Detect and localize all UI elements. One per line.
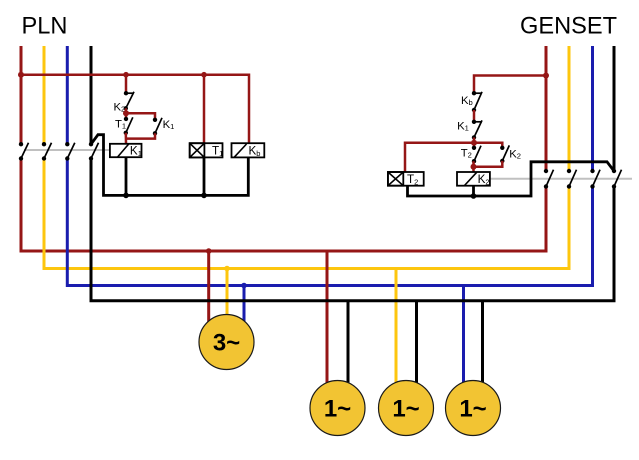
left control neutral bus (black) xyxy=(91,135,248,196)
contact Kb (NC) right circuit xyxy=(472,91,482,112)
motor M3 single-phase load xyxy=(379,381,434,436)
wire GENSET L3 upper (blue) xyxy=(591,46,594,171)
svg-text:Kb: Kb xyxy=(461,95,473,107)
contact K2 aux (NO) right circuit xyxy=(500,145,509,163)
wire L1 drop to 3-phase motor xyxy=(207,251,210,330)
wire red bus to K2 contact xyxy=(125,75,128,94)
node junction below K1 right xyxy=(471,140,477,146)
contactor K1 pole L3 xyxy=(65,142,75,161)
coil K1 box xyxy=(110,144,142,157)
wire GENSET L2 upper (yellow) xyxy=(568,46,571,171)
wire bus L3 (blue) xyxy=(67,159,592,286)
node K1 coil on neutral bus xyxy=(123,193,129,199)
wire junction to K2 contact (right branch) xyxy=(474,143,502,148)
svg-text:1~: 1~ xyxy=(459,396,486,423)
wire N drop to single-phase motor 2 xyxy=(415,301,418,390)
wire L3 drop to single-phase motor 3 xyxy=(462,286,465,391)
svg-text:GENSET: GENSET xyxy=(520,13,617,39)
node junction above K2 coil xyxy=(471,164,477,170)
wire bus L1 (red) PLN switch to GENSET switch xyxy=(21,159,546,251)
contactor K1 pole L2 xyxy=(42,142,52,161)
node L1 drop xyxy=(206,248,212,254)
node K2 coil on neutral bus xyxy=(471,193,477,199)
node tap on PLN L1 xyxy=(18,72,24,78)
node K1-coil branch on red bus xyxy=(123,72,129,78)
svg-text:K2: K2 xyxy=(509,149,521,161)
motor M2 single-phase load xyxy=(310,381,365,436)
wire red bus to T1 timer coil xyxy=(203,75,206,144)
wire L2 drop to single-phase motor 2 xyxy=(395,269,398,391)
contact K1 (NC) right circuit xyxy=(472,120,482,140)
wire junction to K1 contact branch xyxy=(126,113,155,120)
coil Kb box xyxy=(232,143,265,157)
node junction below K2 xyxy=(123,110,129,116)
contactor K2 pole L1 (GENSET) xyxy=(544,169,554,189)
svg-text:K1: K1 xyxy=(457,121,469,133)
node L2 drop xyxy=(224,266,230,272)
wire L3 drop to 3-phase motor xyxy=(243,286,246,331)
left control phase bus (red) xyxy=(21,75,249,144)
mechanical linkage PLN contactor (gray) xyxy=(24,149,110,151)
motor M1 three-phase load xyxy=(199,315,254,370)
contactor K2 pole L3 (GENSET) xyxy=(590,169,600,189)
wire GENSET L1 upper (red) xyxy=(545,46,548,171)
contactor K2 pole N (GENSET) xyxy=(612,169,622,189)
contact T2 (NO) right circuit xyxy=(472,146,481,164)
wire bus L2 (yellow) xyxy=(44,159,569,269)
wire PLN L2 upper (yellow) xyxy=(43,46,46,144)
wire junction to T2 coil (left branch) xyxy=(405,143,474,172)
wire K2 to junction xyxy=(125,108,128,113)
timer T1 box xyxy=(190,143,223,157)
coil K2 box xyxy=(457,172,490,186)
wire PLN L1 upper (red) xyxy=(20,46,23,144)
contactor K2 pole L2 (GENSET) xyxy=(567,169,577,189)
wire parallel-bottom to K1 coil xyxy=(126,133,155,144)
wire junction to T1 contact xyxy=(125,113,128,119)
node tap on GENSET L1 xyxy=(543,73,549,79)
node T1 coil on neutral bus xyxy=(201,193,207,199)
svg-text:1~: 1~ xyxy=(324,396,351,423)
contact K1 aux (NO) left circuit xyxy=(153,118,162,136)
wire PLN N upper (black) xyxy=(90,46,93,144)
node L3 drop xyxy=(241,283,247,289)
node T1-coil branch on red bus xyxy=(201,72,207,78)
right control neutral bus (black) xyxy=(408,162,615,196)
wire N drop to single-phase motor 3 xyxy=(481,301,484,390)
wire T1 coil bottom to neutral xyxy=(203,157,206,195)
wire bus N (black) xyxy=(91,159,614,301)
contact K2 (NC) left circuit xyxy=(124,91,134,111)
wire junction down to T2 contact xyxy=(473,137,476,147)
motor M4 single-phase load xyxy=(446,381,501,436)
timer T2 box xyxy=(388,172,424,186)
wire parallel bottom to K2 coil xyxy=(474,161,503,172)
svg-text:3~: 3~ xyxy=(213,330,240,357)
wire GENSET N upper (black) xyxy=(613,46,616,171)
wire Kb to K1 contact xyxy=(473,110,476,122)
wire K1 coil bottom to neutral xyxy=(125,157,128,195)
svg-text:T2: T2 xyxy=(461,148,472,160)
wire L1 drop to single-phase motor 1 xyxy=(326,251,329,390)
svg-text:1~: 1~ xyxy=(392,396,419,423)
mechanical linkage GENSET contactor (gray) xyxy=(490,178,632,180)
right control phase wire (red) tap from GENSET L1 xyxy=(474,76,546,94)
svg-text:K1: K1 xyxy=(163,119,175,131)
contactor K1 pole L1 xyxy=(19,142,29,161)
wire PLN L3 upper (blue) xyxy=(66,46,69,144)
contact T1 (NO) left circuit xyxy=(124,117,133,135)
wire L2 drop to 3-phase motor xyxy=(226,269,229,331)
wire N drop to single-phase motor 1 xyxy=(347,301,350,390)
contactor K1 pole N xyxy=(89,142,99,161)
svg-text:PLN: PLN xyxy=(22,13,68,39)
wire K2 coil bottom to neutral xyxy=(472,186,475,196)
